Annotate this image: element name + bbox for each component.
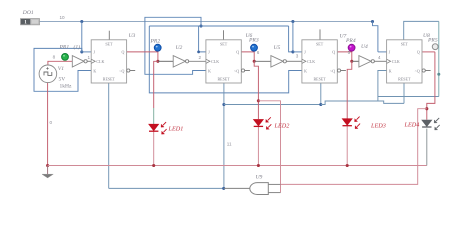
svg-text:K: K xyxy=(389,68,392,73)
wire U2 output to CLK U6 xyxy=(189,60,206,62)
node RESET2-rail junction xyxy=(222,103,225,106)
svg-text:0: 0 xyxy=(50,120,53,125)
wire net10 drop to J of U7 xyxy=(289,26,293,52)
wire J pin U3 xyxy=(82,51,91,53)
svg-text:1kHz: 1kHz xyxy=(60,83,72,89)
svg-text:5V: 5V xyxy=(59,77,66,83)
wire RESET rail to AND output xyxy=(109,187,224,189)
svg-text:SET: SET xyxy=(401,42,409,47)
LED LED4 xyxy=(422,118,440,130)
wire Q2 to U5 input xyxy=(254,60,271,62)
svg-text:LED1: LED1 xyxy=(168,126,184,133)
wire LED3 feed with jog xyxy=(347,61,352,118)
node net10 junction x201 xyxy=(199,24,202,27)
node J1 junction xyxy=(80,50,83,53)
wire U5 output to CLK U7 xyxy=(286,60,302,62)
wire LED1 feed teal part xyxy=(153,108,155,124)
inverter U2 xyxy=(173,56,189,67)
svg-text:U3: U3 xyxy=(129,33,136,39)
svg-text:CLK: CLK xyxy=(392,59,400,64)
svg-text:SET: SET xyxy=(316,42,324,47)
wire J pin U8 xyxy=(378,51,387,53)
wire net10 drop to J of U8 xyxy=(373,22,378,52)
probe PR1 xyxy=(62,54,69,61)
node LED1 rail junction xyxy=(152,164,155,167)
svg-text:Q: Q xyxy=(122,50,125,55)
node LED2 branch junction xyxy=(257,99,260,102)
wire ground rail up to LED4 cathode xyxy=(426,129,428,166)
svg-text:~Q: ~Q xyxy=(119,68,124,73)
wire Q1 from U3 to PR2 corner xyxy=(126,52,158,61)
flip-flop U6 xyxy=(206,40,250,83)
svg-text:CLK: CLK xyxy=(211,59,219,64)
wire RESET stub U7 xyxy=(320,83,322,105)
LED LED2 xyxy=(254,117,272,129)
AND gate U9 xyxy=(250,183,268,195)
wire LED1 feed upper xyxy=(154,61,158,108)
svg-text:1: 1 xyxy=(24,20,27,26)
node net10 junction at x82 xyxy=(80,20,83,23)
wire AND input2 stub xyxy=(268,192,281,194)
node Q1 junction xyxy=(156,60,159,63)
wire right edge vertical xyxy=(438,21,440,96)
voltage source V1 xyxy=(39,65,57,83)
svg-text:SET: SET xyxy=(220,42,228,47)
flip-flop U8 xyxy=(387,40,431,83)
wire Q4 from U8 to PR5 xyxy=(422,51,435,53)
svg-text:K: K xyxy=(304,68,307,73)
svg-text:~Q: ~Q xyxy=(330,68,335,73)
inverter U4 xyxy=(359,56,375,67)
svg-text:Q: Q xyxy=(236,50,239,55)
svg-text:LED2: LED2 xyxy=(274,123,290,130)
svg-text:PR5: PR5 xyxy=(427,38,438,44)
node J3 junction xyxy=(291,50,294,53)
svg-text:RESET: RESET xyxy=(398,77,411,82)
inverter U5 xyxy=(271,56,287,67)
wire ground rail xyxy=(48,165,427,167)
probe PR4 xyxy=(348,44,355,51)
svg-text:CLK: CLK xyxy=(96,59,104,64)
wire K pin U8 down to rail xyxy=(378,71,387,101)
wire K-tie loop W2 to K of U7 xyxy=(149,26,302,93)
node ground rail junction V1 xyxy=(46,164,49,167)
svg-text:6: 6 xyxy=(257,50,260,55)
wire net10 drop to J of U3 xyxy=(81,22,83,52)
svg-text:RESET: RESET xyxy=(217,77,230,82)
wire SET stub U3 xyxy=(108,31,110,40)
LED LED3 xyxy=(343,117,361,129)
wire LED2 cathode to rail xyxy=(257,127,259,166)
node RESET3 junction xyxy=(319,103,322,106)
inverter U1 xyxy=(72,56,87,67)
wire J pin U7 xyxy=(293,51,302,53)
wire SET stub U6 xyxy=(223,30,225,40)
svg-text:PR3: PR3 xyxy=(248,38,259,44)
svg-text:11: 11 xyxy=(227,141,232,146)
svg-text:~Q: ~Q xyxy=(234,68,239,73)
wire Q4 down to LED4 xyxy=(427,52,435,120)
wire LED2 feed xyxy=(254,61,258,119)
svg-text:LED3: LED3 xyxy=(370,123,386,130)
node LED4 branch junction xyxy=(425,107,428,110)
wire U4 output to CLK U8 xyxy=(375,60,387,62)
svg-text:2: 2 xyxy=(199,55,202,60)
svg-text:LED4: LED4 xyxy=(404,122,420,129)
flip-flop U7 xyxy=(302,40,346,83)
wire RESET stub U8 xyxy=(403,83,405,103)
probe PR3 xyxy=(251,44,258,51)
svg-text:U2: U2 xyxy=(176,45,183,51)
svg-text:5: 5 xyxy=(348,50,351,55)
flip-flop U3 xyxy=(91,40,135,83)
node Q3 junction xyxy=(350,60,353,63)
node net10 junction at x293 xyxy=(291,20,294,23)
wire Q1 to U2 input xyxy=(158,60,173,62)
svg-text:~Q: ~Q xyxy=(415,68,420,73)
svg-text:U9: U9 xyxy=(256,175,263,181)
node J2 junction xyxy=(197,51,200,54)
svg-text:PR4: PR4 xyxy=(345,38,356,44)
wire LED1 cathode to rail xyxy=(153,131,155,166)
probe PR2 xyxy=(154,44,161,51)
svg-text:PR1: PR1 xyxy=(59,45,70,51)
wire Q2 from U6 to PR3 corner xyxy=(241,52,254,61)
wire V1 minus to ground rail xyxy=(47,83,49,166)
wire AND output xyxy=(224,187,250,189)
node net10 junction at x372 xyxy=(371,20,374,23)
wire Q3 to U4 input xyxy=(352,60,359,62)
wire RESET net U3 vertical xyxy=(108,83,110,188)
svg-text:3: 3 xyxy=(296,54,299,59)
svg-text:DO1: DO1 xyxy=(22,10,34,16)
wire loop bottom xyxy=(378,96,439,98)
node LED3 rail junction xyxy=(346,164,349,167)
wire AND input1 stub xyxy=(268,183,281,185)
ground xyxy=(42,166,53,178)
wire K-tie loop around V1 to K of U3 xyxy=(34,48,91,91)
wire SET stub U7 xyxy=(319,29,321,39)
svg-text:Q: Q xyxy=(332,50,335,55)
svg-text:4: 4 xyxy=(378,55,381,60)
LED LED1 xyxy=(149,122,167,134)
svg-text:SET: SET xyxy=(105,42,113,47)
svg-text:K: K xyxy=(93,68,96,73)
node RESET-AND junction xyxy=(222,187,225,190)
wire Q4 branch to AND input line xyxy=(281,109,427,185)
wire reset rail right with step xyxy=(321,101,404,105)
svg-text:K: K xyxy=(208,68,211,73)
svg-text:RESET: RESET xyxy=(313,77,326,82)
wire LED3 cathode to rail xyxy=(346,126,348,166)
svg-text:V1: V1 xyxy=(58,66,64,72)
node on right edge vertical xyxy=(437,73,440,76)
digital constant DO1 xyxy=(21,19,40,26)
node Q2 junction xyxy=(253,60,256,63)
node LED2 rail junction xyxy=(257,164,260,167)
svg-text:1: 1 xyxy=(88,55,91,60)
wire Q3 from U7 to PR4 corner xyxy=(338,52,352,61)
svg-text:U5: U5 xyxy=(274,45,281,51)
svg-text:(1): (1) xyxy=(74,44,81,51)
wire net10 vertical to J3 node xyxy=(292,22,294,52)
wire reset rail mid xyxy=(224,104,321,106)
wire K-tie loop W1 to K of U6 xyxy=(145,17,206,74)
svg-text:8: 8 xyxy=(53,55,56,60)
svg-text:CLK: CLK xyxy=(307,59,315,64)
wire Q2 branch to AND input1 xyxy=(258,101,280,185)
svg-text:U4: U4 xyxy=(361,44,368,50)
wire U1 output to CLK U3 xyxy=(87,60,91,62)
svg-text:RESET: RESET xyxy=(103,77,116,82)
wire top-right loop from SET of U8 xyxy=(404,21,439,39)
wire V1 plus to clock node xyxy=(48,61,72,65)
svg-text:PR2: PR2 xyxy=(150,39,161,45)
wire net 10 main horizontal xyxy=(40,21,373,23)
wire net10 second horizontal y26 xyxy=(149,25,288,27)
wire net10 drop to J of U6 xyxy=(199,26,206,52)
svg-text:10: 10 xyxy=(60,15,66,20)
wire RESET net U6 vertical xyxy=(223,83,225,188)
probe PR5 xyxy=(432,44,438,50)
svg-text:Q: Q xyxy=(417,50,420,55)
wire AND inputs tie xyxy=(280,184,282,192)
